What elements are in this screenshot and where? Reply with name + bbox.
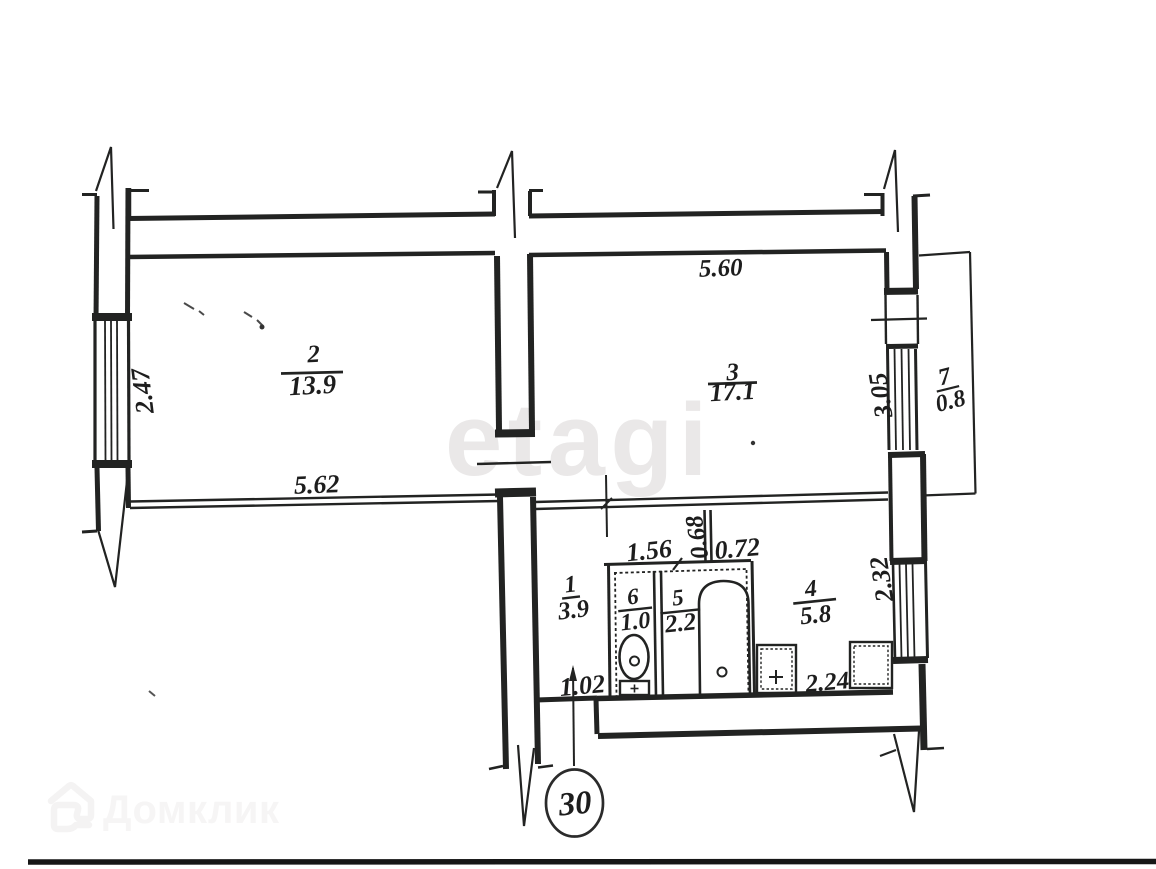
wall break symbol: bottom-right zigzag — [894, 731, 919, 812]
wall stub 0.68 (kitchen door jamb) — [705, 510, 706, 562]
room 4 label (4 / 5.8) — [791, 574, 839, 631]
wall: middle wall right line (lower) — [533, 497, 538, 764]
svg-text:30: 30 — [556, 785, 593, 824]
wall: room 3 inner top line — [529, 251, 886, 256]
wall pier between windows (rect) — [889, 452, 925, 562]
window W3 top bar — [886, 344, 918, 350]
tick: bottom-right wall end — [927, 748, 944, 749]
tick: bottom-right inner — [880, 750, 896, 756]
bathtub — [699, 581, 750, 694]
wall: top-right corner return + tick — [881, 193, 885, 216]
wall break symbol: top-middle zigzag — [497, 151, 515, 238]
speck marks in room 2 — [184, 303, 263, 326]
window W2 bottom bar — [92, 460, 132, 468]
wall: right exterior below window W4 — [922, 664, 924, 750]
kitchen stove — [850, 642, 892, 688]
tick: top-left outer corner — [82, 193, 97, 196]
wall: middle wall left line (upper) — [497, 256, 499, 430]
wall: WC left outer line — [609, 564, 611, 696]
room 1 label (1 / 3.9) — [552, 570, 591, 626]
wall: middle wall left line (lower) — [500, 497, 506, 769]
wall: hall bottom step (door head) — [536, 698, 597, 700]
wall: left exterior inner line (upper) — [125, 188, 131, 321]
svg-text:5: 5 — [671, 585, 685, 611]
wall: room3 bottom partition upper line — [535, 493, 888, 503]
wall: top exterior outer line, left segment — [128, 214, 495, 219]
window W4 (kitchen) glazing hatch — [893, 564, 895, 658]
svg-text:17.1: 17.1 — [709, 376, 756, 407]
tick: middle wall bottom end (right line) — [538, 766, 553, 768]
room 7 label (7 / 0.8) — [927, 361, 968, 418]
svg-text:3.9: 3.9 — [555, 595, 591, 626]
wall: middle wall right line (upper) — [530, 254, 532, 430]
room 5 label (5 / 2.2) — [658, 583, 703, 639]
window W4 bottom bar — [893, 660, 928, 661]
svg-text:13.9: 13.9 — [288, 369, 337, 401]
bathtub drain — [718, 668, 727, 677]
wall break symbol: top-right zigzag — [884, 150, 898, 232]
tick: top-right outer corner — [913, 195, 930, 196]
bottom page rule — [28, 859, 1156, 865]
wall: bath right inner line (dotted) — [747, 570, 749, 695]
tick: bottom-left outer corner — [82, 531, 97, 532]
wall: left exterior outer line (upper) — [96, 196, 97, 321]
wall: room2/hall partition lower line — [130, 501, 500, 508]
room 6 label (6 / 1.0) — [616, 582, 655, 636]
wall: top-left corner return + tick — [127, 188, 132, 218]
wall: top-middle right corner return + tick — [528, 191, 532, 216]
wall: WC/bath divider — [654, 571, 656, 696]
wall break symbol: top-left zigzag — [96, 147, 114, 229]
svg-text:5.8: 5.8 — [799, 600, 833, 630]
balcony door jambs — [884, 295, 887, 344]
svg-text:2.2: 2.2 — [663, 608, 698, 638]
svg-text:1: 1 — [563, 571, 578, 598]
balcony door threshold line — [871, 319, 927, 321]
watermark: Domklik text — [103, 788, 280, 833]
wall: right exterior outer line (window W4 edge) — [926, 561, 928, 658]
wall: right exterior inner line (upper stub) — [884, 252, 890, 289]
svg-text:1.0: 1.0 — [619, 607, 652, 636]
wall: top-middle left corner return + tick — [492, 190, 496, 216]
window W3 glazing hatch — [888, 349, 890, 450]
window W2 top bar — [92, 313, 132, 321]
dot mark in room 3 — [751, 441, 755, 445]
balcony top line — [919, 252, 970, 256]
svg-text:4: 4 — [803, 576, 819, 603]
wall: left exterior outer line (lower) — [97, 468, 99, 531]
entrance dimension arrow line — [573, 668, 574, 766]
svg-text:0.68: 0.68 — [681, 513, 715, 561]
wall: san block top inner line (dotted) — [614, 569, 746, 573]
wall: top exterior outer line, right segment — [529, 212, 884, 217]
svg-text:2: 2 — [306, 341, 321, 369]
wall: bath right outer line — [752, 561, 755, 695]
wall: bottom wall top edge — [597, 692, 893, 699]
svg-text:2.47: 2.47 — [125, 366, 160, 417]
tick: middle wall bottom end (left line) — [489, 766, 503, 769]
svg-text:0.72: 0.72 — [713, 532, 761, 565]
toilet tank — [620, 681, 649, 695]
watermark: etagi — [445, 381, 713, 499]
door D1 jamb bar (lower) — [495, 492, 536, 493]
window W2 glazing hatch lines — [93, 321, 96, 460]
svg-text:1.56: 1.56 — [625, 534, 673, 568]
wall: WC left inner line (dotted) — [615, 572, 617, 696]
svg-text:5.62: 5.62 — [293, 469, 339, 500]
balcony right line — [970, 252, 976, 494]
watermark: Domklik logo house icon — [43, 779, 99, 837]
svg-text:5.60: 5.60 — [698, 254, 743, 283]
wall: san block top outer line — [604, 561, 751, 565]
wall pier bar above balcony door — [884, 288, 918, 296]
tick: 1.56 dimension right end — [673, 558, 682, 570]
wall break symbol: bottom-middle zigzag — [518, 745, 534, 826]
svg-text:6: 6 — [626, 583, 641, 609]
door D1 jamb bar (upper) — [495, 429, 535, 438]
wall: left exterior inner line (lower) — [126, 468, 132, 508]
toilet bowl — [620, 635, 649, 679]
wall: bottom wall bottom edge — [598, 729, 921, 737]
balcony bottom line — [922, 494, 976, 496]
wall: room3 bottom partition lower line — [535, 500, 888, 510]
speck mark below room2 wall — [149, 691, 155, 696]
svg-text:3.05: 3.05 — [863, 371, 899, 421]
dimension tick line at x=606 — [606, 475, 607, 537]
wall: room 2 inner top line — [128, 253, 495, 257]
wall: right exterior outer line (upper) — [915, 196, 917, 289]
wall: entrance notch vertical — [596, 699, 597, 734]
kitchen sink — [757, 645, 796, 693]
svg-text:1.02: 1.02 — [558, 669, 606, 702]
apartment number circle 30 — [546, 770, 603, 837]
wall: room2/hall partition upper line — [130, 495, 500, 502]
wall break symbol: bottom-left zigzag — [98, 468, 129, 587]
door D1 opening line — [477, 462, 551, 464]
